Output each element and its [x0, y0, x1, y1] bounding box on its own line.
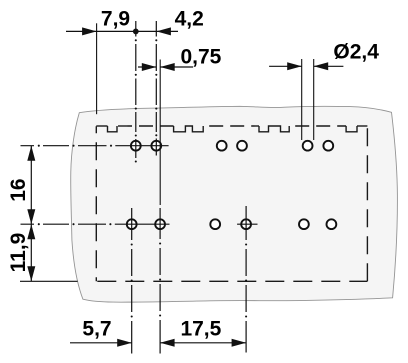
arrow 16 up	[27, 146, 35, 161]
svg-text:5,7: 5,7	[82, 318, 111, 341]
vertical centerline hole A2	[155, 21, 157, 156]
arrow 5,7 left	[117, 339, 132, 347]
tangent extension line right of hole A5	[313, 59, 315, 140]
dimension Ø2,4	[269, 65, 302, 67]
housing outline top edge: notch 4	[346, 126, 357, 132]
centerline top hole row	[21, 145, 169, 147]
svg-text:17,5: 17,5	[180, 318, 221, 341]
vertical centerline hole A1	[135, 21, 137, 158]
extension line 0,75 right / centerline hole B2 top part	[159, 60, 161, 206]
dimension 7,9 / 4,2 line	[66, 30, 178, 32]
hole A5	[303, 141, 313, 151]
svg-text:0,75: 0,75	[180, 45, 221, 68]
dashed housing outline: right edge	[366, 126, 368, 281]
tangent extension line left of hole A5	[301, 59, 303, 140]
vertical centerline hole B2	[159, 208, 161, 354]
dimension 11,9 vertical line	[30, 224, 32, 281]
extension line at housing left edge	[96, 23, 98, 114]
dimension 5,7 / 17,5 lines	[70, 342, 132, 344]
hole B5	[299, 219, 309, 229]
centerline through hole at x=246	[237, 223, 257, 225]
hole B6	[327, 219, 337, 229]
vertical centerline hole B4	[245, 206, 247, 353]
hole A6	[323, 141, 333, 151]
dot at hole A1 centerline	[133, 29, 139, 35]
hole B3	[210, 219, 220, 229]
arrow 0,75 right	[160, 63, 175, 71]
svg-text:4,2: 4,2	[175, 7, 204, 30]
svg-text:16: 16	[7, 178, 30, 201]
arrow 11,9 up	[27, 224, 35, 239]
dashed housing outline: bottom edge	[96, 280, 367, 282]
arrow 11,9 down	[27, 266, 35, 281]
dashed housing outline: left edge	[95, 126, 97, 281]
arrow 4,2 right	[156, 27, 171, 35]
housing outline top edge: notch 1	[108, 126, 118, 132]
PCB board section (gray, torn edges)	[71, 106, 398, 302]
arrow 5,7 right / 17,5 left	[160, 339, 175, 347]
centerline bottom hole row	[21, 223, 170, 225]
arrow 16 down	[27, 209, 35, 224]
hole A3	[217, 141, 227, 151]
hole B1	[127, 219, 137, 229]
arrow 17,5 right	[232, 339, 247, 347]
svg-text:7,9: 7,9	[101, 7, 130, 30]
housing outline top edge: dashed straight runs	[96, 125, 107, 127]
arrow 0,75 left	[142, 63, 157, 71]
dimension 16 vertical line	[30, 146, 32, 225]
hole A1	[131, 141, 141, 151]
hole A4	[237, 141, 247, 151]
arrow Ø2,4 right	[314, 62, 329, 70]
arrow 7,9 left	[82, 27, 97, 35]
svg-text:Ø2,4: Ø2,4	[333, 41, 379, 64]
extension line bottom housing edge	[20, 280, 78, 282]
hole A2	[151, 141, 161, 151]
hole B4	[241, 219, 251, 229]
dimension 0,75	[138, 66, 156, 68]
housing outline top edge: notch pair 3	[259, 126, 289, 132]
housing outline top edge: notch pair 2	[174, 126, 204, 132]
arrow Ø2,4 left	[287, 62, 302, 70]
hole B2	[155, 219, 165, 229]
vertical centerline hole B1	[131, 208, 133, 354]
svg-text:11,9: 11,9	[7, 233, 30, 273]
